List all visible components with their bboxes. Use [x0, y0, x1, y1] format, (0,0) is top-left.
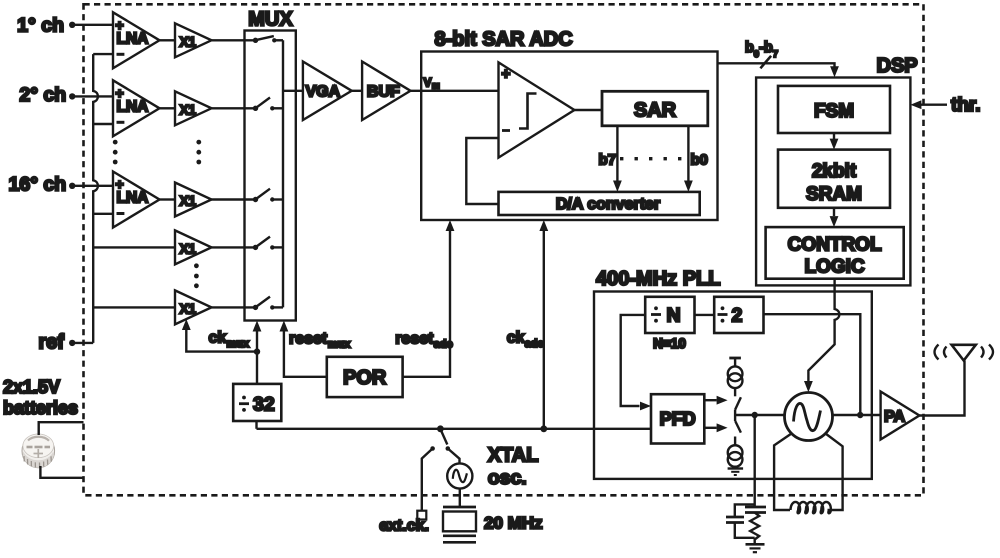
ellipsis dots X1 column upper	[196, 140, 201, 165]
svg-text:LNA: LNA	[117, 190, 149, 207]
wire POR to reset_adc riser	[403, 220, 455, 377]
node ck_mux label	[209, 330, 251, 350]
svg-text:400-MHz PLL: 400-MHz PLL	[596, 268, 720, 290]
switch MUX ch2	[253, 98, 283, 112]
svg-text:ck: ck	[507, 330, 525, 347]
DSP block box	[756, 55, 918, 285]
divider 32 box	[233, 384, 281, 421]
svg-text:adc: adc	[434, 338, 453, 350]
block POR	[327, 357, 403, 397]
svg-text:2x1.5V: 2x1.5V	[3, 377, 60, 397]
svg-text:IN: IN	[432, 81, 440, 90]
block CONTROL LOGIC	[766, 227, 904, 279]
buffer X1 ch2	[175, 91, 212, 125]
node ck_adc label	[507, 330, 544, 350]
wire charge pump node	[735, 410, 755, 422]
wire ch2 input	[72, 95, 113, 97]
wire FSM to SRAM arrow	[830, 133, 839, 150]
wire PFD up output arrow	[704, 396, 727, 405]
node 2° ch input	[19, 84, 75, 106]
wire battery bottom to chip	[40, 466, 83, 478]
battery coin cell icon	[22, 434, 55, 468]
register SAR box	[602, 91, 708, 126]
wire LNA2 minus stub	[93, 123, 113, 125]
wire LNA3 minus stub	[93, 213, 113, 215]
oscillator XTAL circle	[447, 463, 472, 488]
wire X1 ch2 to MUX	[212, 107, 256, 109]
wire ref input	[72, 342, 93, 344]
svg-text:N: N	[667, 305, 681, 327]
svg-text:8-bit SAR ADC: 8-bit SAR ADC	[435, 28, 573, 50]
wire div32 to MUX ck arrow	[253, 321, 262, 384]
svg-text:reset: reset	[289, 330, 328, 347]
svg-text:mux: mux	[227, 338, 251, 350]
node reset_adc label	[395, 330, 452, 350]
wire MUX output bus	[282, 40, 284, 307]
divider N box	[645, 297, 694, 351]
block FSM	[778, 86, 890, 133]
wire DAC feedback to comparator minus	[466, 138, 498, 204]
svg-text:16° ch: 16° ch	[9, 174, 67, 196]
wire ck_adc riser arrow	[539, 220, 548, 429]
svg-text:PA: PA	[884, 409, 905, 426]
amplifier PA	[881, 392, 920, 440]
node reset_mux label	[289, 330, 351, 350]
wire VCO to PA	[833, 414, 881, 416]
wire div32 output down	[255, 421, 257, 429]
ellipsis dots left column	[113, 140, 118, 165]
switch charge pump upper	[735, 388, 741, 410]
buffer X1 ch5	[175, 290, 212, 324]
svg-text:SRAM: SRAM	[806, 184, 862, 205]
svg-text:X1: X1	[180, 34, 197, 49]
svg-text:7: 7	[773, 49, 778, 60]
power supply tick	[729, 358, 741, 367]
ground loop filter	[746, 544, 765, 552]
wire BUF to comparator (vin)	[411, 90, 499, 92]
wire LNA3 to X1	[160, 198, 176, 200]
svg-text:ck: ck	[209, 330, 227, 347]
resistor R loop filter	[750, 513, 759, 545]
node charge pump junction	[752, 412, 758, 418]
svg-text:osc.: osc.	[488, 467, 527, 489]
buffer X1 ch4	[175, 230, 212, 264]
wire CONTROL LOGIC to VCO (with hop)	[804, 279, 839, 393]
current source upper	[728, 366, 743, 388]
svg-text:LNA: LNA	[117, 31, 149, 48]
svg-text:ext.ck.: ext.ck.	[379, 518, 429, 535]
oscillator VCO	[785, 393, 833, 441]
wire LNA1 to X1	[160, 39, 176, 41]
svg-text:b7: b7	[598, 152, 616, 169]
amplifier LNA1	[113, 12, 160, 68]
wire battery top to chip	[39, 422, 84, 435]
wire main clock line	[257, 428, 652, 430]
wire VGA to BUF	[352, 90, 362, 92]
wire ch4 input	[93, 246, 175, 248]
svg-text:N=10: N=10	[653, 336, 686, 351]
svg-text:X1: X1	[180, 102, 197, 117]
svg-text:b: b	[745, 40, 754, 56]
svg-text:2° ch: 2° ch	[19, 84, 66, 106]
svg-text:ref: ref	[38, 332, 64, 354]
PLL block box	[594, 268, 872, 479]
svg-text:SAR: SAR	[634, 100, 677, 122]
wire POR to reset_mux arrow	[280, 321, 327, 377]
switch MUX ch4	[253, 237, 283, 250]
buffer X1 ch3	[175, 183, 212, 217]
svg-text:FSM: FSM	[814, 101, 854, 122]
node XTAL osc. label	[488, 445, 539, 490]
node ck junction	[254, 348, 260, 354]
node xtal tap junction	[437, 425, 444, 432]
wire b7 arrow SAR to DAC	[613, 126, 622, 192]
svg-text:+: +	[502, 66, 511, 83]
svg-text:V: V	[424, 76, 432, 90]
svg-text:20 MHz: 20 MHz	[484, 514, 543, 533]
wire SRAM to CONTROL arrow	[830, 208, 839, 227]
buffer X1 ch1	[175, 23, 212, 57]
svg-text:XTAL: XTAL	[488, 445, 539, 467]
wire thr input arrow	[910, 95, 980, 116]
switch MUX ch3	[253, 189, 283, 203]
capacitor C2	[745, 507, 766, 513]
svg-text:batteries: batteries	[3, 398, 78, 418]
wire xtal branch	[448, 449, 460, 464]
switch MUX ch5	[253, 297, 283, 310]
node vin label	[424, 76, 440, 91]
svg-text:X1: X1	[180, 241, 197, 256]
svg-text:2: 2	[732, 305, 743, 327]
svg-text:CONTROL: CONTROL	[788, 235, 882, 256]
wire X1 ch3 to MUX	[212, 198, 256, 200]
memory 2kbit SRAM	[778, 150, 890, 208]
ellipsis dots between b7 and b0	[620, 157, 681, 160]
wire div2 to VCO output (feedback)	[764, 314, 861, 415]
amplifier VGA	[303, 62, 352, 121]
wire X1 ch5 to MUX	[212, 306, 256, 308]
switch MUX ch1 (closed)	[253, 36, 283, 43]
wire MUX to VGA	[283, 90, 303, 92]
svg-text:1° ch: 1° ch	[17, 15, 64, 37]
svg-text:LNA: LNA	[117, 99, 149, 116]
wire ck to X1 arrow	[182, 319, 257, 352]
wire comparator to SAR	[574, 109, 602, 111]
crystal 20 MHz	[443, 507, 543, 542]
node b0-b7 label	[745, 40, 778, 60]
ground charge pump	[728, 469, 744, 476]
svg-text:MUX: MUX	[248, 9, 293, 31]
svg-text:VGA: VGA	[306, 84, 341, 101]
node ck_adc tap junction	[540, 425, 547, 432]
amplifier LNA3	[113, 172, 160, 228]
converter DAC box	[499, 192, 700, 215]
svg-text:DSP: DSP	[877, 55, 918, 77]
wire PA to antenna	[919, 361, 964, 416]
svg-text:X1: X1	[180, 301, 197, 316]
wire LNA1 minus stub	[93, 53, 113, 55]
wire ext clock branch	[422, 449, 433, 511]
wire LNA2 to X1	[160, 107, 176, 109]
node 16° ch input	[9, 174, 76, 196]
wire ADC output to DSP (b0-b7 bus)	[718, 63, 839, 77]
ellipsis dots X1 column lower	[194, 263, 199, 288]
wire ch5 input	[93, 306, 175, 308]
svg-text:X1: X1	[180, 194, 197, 209]
wire divN to PFD arrow	[621, 315, 651, 411]
battery label	[3, 377, 78, 418]
svg-text:b0: b0	[691, 152, 709, 169]
wire ch1 input	[72, 24, 113, 26]
svg-text:thr.: thr.	[951, 95, 981, 116]
multiplexer MUX box	[245, 9, 296, 321]
wire VCO node to loop filter	[754, 415, 756, 507]
wire X1 ch4 to MUX	[212, 246, 256, 248]
chip boundary (dashed)	[84, 4, 924, 495]
amplifier BUF	[362, 62, 410, 121]
node ext.ck. pad	[379, 511, 429, 535]
svg-text:POR: POR	[343, 367, 387, 389]
svg-text:LOGIC: LOGIC	[805, 257, 865, 278]
svg-text:adc: adc	[525, 338, 544, 350]
wire PFD down output arrow	[704, 423, 727, 432]
svg-text:D/A converter: D/A converter	[556, 196, 660, 213]
inductor tank coil	[774, 434, 843, 514]
op-amp comparator	[499, 62, 575, 157]
current source lower	[728, 445, 743, 467]
svg-text:reset: reset	[395, 330, 434, 347]
svg-text:32: 32	[253, 394, 275, 416]
wire ch16 input	[72, 185, 113, 187]
detector PFD box	[651, 394, 704, 443]
wire ref vertical bus with hops	[93, 54, 98, 343]
wire X1 ch1 to MUX	[212, 39, 256, 41]
switch charge pump lower	[735, 421, 741, 446]
wire node to VCO	[755, 414, 785, 416]
amplifier LNA2	[113, 80, 160, 136]
wire divN to div2	[695, 314, 715, 316]
switch clock select	[430, 432, 450, 451]
node 1° ch input	[17, 15, 75, 37]
svg-text:-b: -b	[759, 40, 773, 56]
svg-text:BUF: BUF	[367, 84, 400, 101]
svg-text:2kbit: 2kbit	[812, 161, 857, 182]
ADC block box	[421, 28, 717, 220]
wire oscillator to crystal	[459, 489, 461, 507]
svg-text:mux: mux	[328, 338, 352, 350]
divider 2 box	[714, 297, 763, 333]
capacitor C1 branch	[726, 504, 755, 537]
antenna	[935, 345, 994, 361]
bus slash marker	[760, 56, 771, 69]
node ref input	[38, 332, 75, 354]
svg-text:PFD: PFD	[660, 409, 696, 429]
wire b0 arrow SAR to DAC	[684, 126, 693, 192]
node VCO output junction	[857, 412, 863, 418]
